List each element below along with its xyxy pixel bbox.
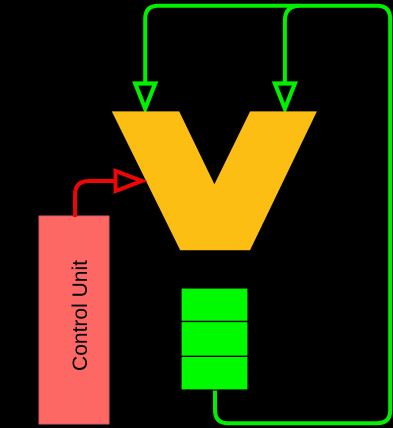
- wire: control unit to ALU: [75, 181, 116, 217]
- wire: branch to ALU right input: [285, 6, 300, 84]
- wire: register file output to ALU left input (main loop): [145, 6, 390, 423]
- register cell divider 2: [181, 355, 248, 357]
- arrowhead into ALU right input: [275, 84, 295, 109]
- ALU U1 (yellow V shape): [112, 111, 317, 250]
- register stack (green box): [181, 288, 248, 390]
- svg-text:Control Unit: Control Unit: [69, 260, 92, 371]
- arrowhead into ALU left input: [135, 84, 155, 109]
- Control Unit box: [39, 216, 109, 424]
- arrowhead into ALU side (control signal): [116, 171, 142, 191]
- register cell divider 1: [181, 320, 248, 322]
